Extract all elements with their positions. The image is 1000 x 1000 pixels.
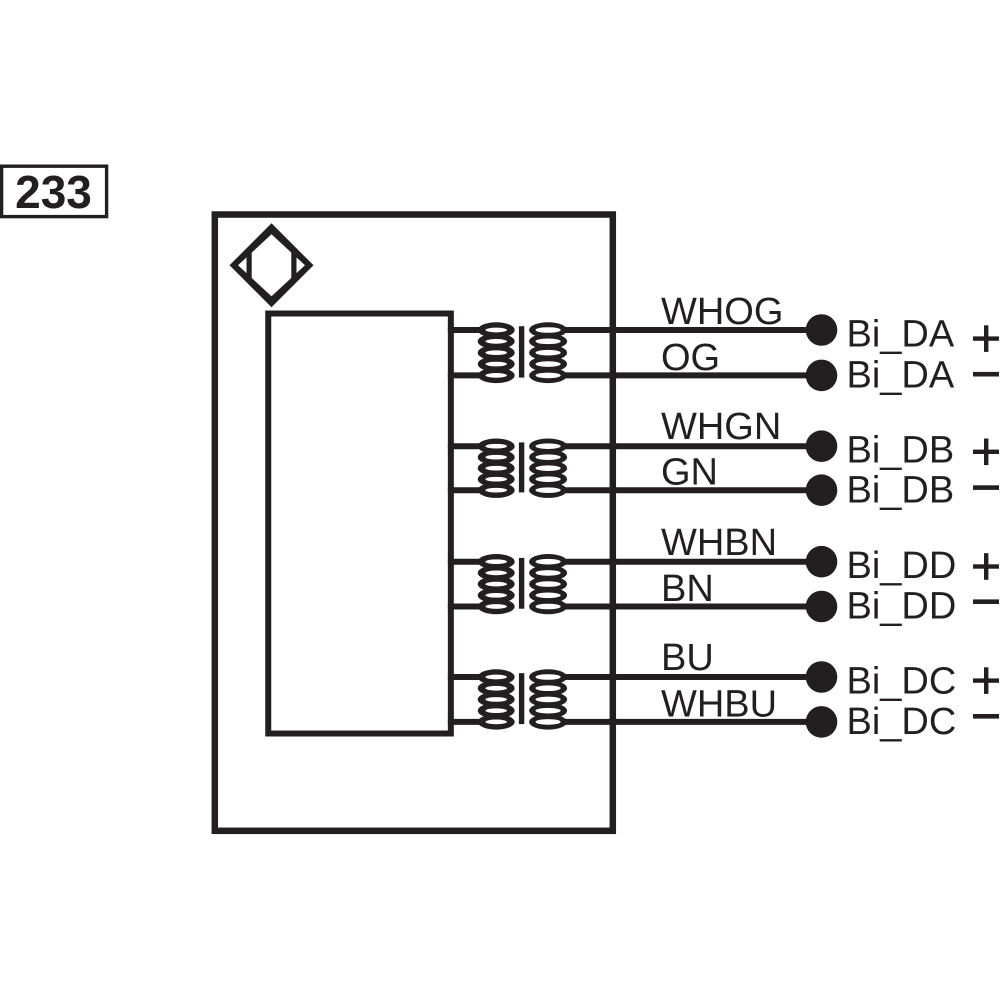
svg-text:BN: BN bbox=[661, 568, 714, 610]
svg-text:Bi_DD: Bi_DD bbox=[847, 586, 957, 628]
choke T3 right winding bbox=[529, 554, 567, 614]
terminal dot Bi_DD - bbox=[806, 591, 838, 623]
svg-text:WHBN: WHBN bbox=[661, 522, 777, 564]
polarity mark + (Bi_DB) bbox=[973, 439, 999, 466]
wire: choke T4 right winding top to terminal bbox=[562, 674, 810, 680]
terminal dot Bi_DB + bbox=[806, 430, 838, 462]
svg-text:Bi_DC: Bi_DC bbox=[847, 701, 957, 743]
choke T3 core bbox=[519, 558, 524, 609]
choke T4 right winding bbox=[529, 669, 567, 729]
wire: choke T2 right winding top to terminal bbox=[562, 443, 810, 449]
polarity mark - (Bi_DD) bbox=[973, 599, 999, 604]
wire: inner block to choke T3 left winding bottom bbox=[448, 604, 480, 610]
wire: choke T1 right winding bottom to terminal bbox=[562, 372, 810, 378]
polarity mark - (Bi_DB) bbox=[973, 485, 999, 490]
polarity mark + (Bi_DC) bbox=[973, 667, 999, 694]
choke T4 left winding bbox=[478, 669, 515, 729]
wire: choke T3 right winding bottom to terminal bbox=[562, 604, 810, 610]
terminal dot Bi_DC - bbox=[806, 706, 838, 738]
terminal dot Bi_DA - bbox=[806, 360, 838, 392]
svg-text:Bi_DA: Bi_DA bbox=[847, 355, 955, 397]
wire: choke T1 right winding top to terminal bbox=[562, 327, 810, 333]
device outline (outer rectangle) bbox=[215, 215, 613, 831]
wire: inner block to choke T1 left winding bottom bbox=[448, 372, 480, 378]
figure label box 233 bbox=[2, 166, 107, 218]
svg-text:GN: GN bbox=[661, 452, 718, 494]
wire: choke T4 right winding bottom to terminal bbox=[562, 719, 810, 725]
terminal dot Bi_DA + bbox=[806, 314, 838, 346]
bus interface symbol (diamond) bbox=[230, 223, 314, 307]
terminal dot Bi_DD + bbox=[806, 546, 838, 578]
wire: inner block to choke T4 left winding top bbox=[448, 674, 480, 680]
svg-text:WHGN: WHGN bbox=[661, 406, 781, 448]
choke T2 core bbox=[519, 442, 524, 492]
svg-text:Bi_DB: Bi_DB bbox=[847, 469, 955, 511]
choke T2 right winding bbox=[529, 439, 567, 498]
choke T1 left winding bbox=[478, 322, 515, 383]
polarity mark + (Bi_DD) bbox=[973, 553, 999, 580]
svg-text:Bi_DA: Bi_DA bbox=[847, 313, 955, 355]
choke T1 core bbox=[519, 326, 524, 377]
svg-text:233: 233 bbox=[15, 166, 92, 218]
wire: inner block to choke T2 left winding top bbox=[448, 443, 480, 449]
wire: inner block to choke T1 left winding top bbox=[448, 327, 480, 333]
svg-text:OG: OG bbox=[661, 337, 720, 379]
svg-text:Bi_DD: Bi_DD bbox=[847, 545, 957, 587]
wire: choke T2 right winding bottom to terminal bbox=[562, 487, 810, 493]
terminal dot Bi_DB - bbox=[806, 474, 838, 506]
wire: inner block to choke T4 left winding bottom bbox=[448, 719, 480, 725]
diamond left bar bbox=[247, 252, 252, 278]
terminal dot Bi_DC + bbox=[806, 661, 838, 693]
polarity mark - (Bi_DC) bbox=[973, 714, 999, 719]
wire: inner block to choke T3 left winding top bbox=[448, 559, 480, 565]
svg-text:WHBU: WHBU bbox=[661, 684, 777, 726]
diamond right bar bbox=[291, 252, 296, 278]
transformer block (inner rectangle) bbox=[268, 314, 451, 734]
svg-text:Bi_DB: Bi_DB bbox=[847, 430, 955, 472]
polarity mark - (Bi_DA) bbox=[973, 372, 999, 377]
svg-text:BU: BU bbox=[661, 637, 714, 679]
choke T4 core bbox=[519, 673, 524, 724]
svg-text:WHOG: WHOG bbox=[661, 291, 783, 333]
polarity mark + (Bi_DA) bbox=[973, 325, 999, 352]
wire: choke T3 right winding top to terminal bbox=[562, 559, 810, 565]
svg-text:Bi_DC: Bi_DC bbox=[847, 660, 957, 702]
choke T1 right winding bbox=[529, 322, 567, 383]
choke T2 left winding bbox=[478, 439, 515, 498]
wire: inner block to choke T2 left winding bottom bbox=[448, 487, 480, 493]
choke T3 left winding bbox=[478, 554, 515, 614]
